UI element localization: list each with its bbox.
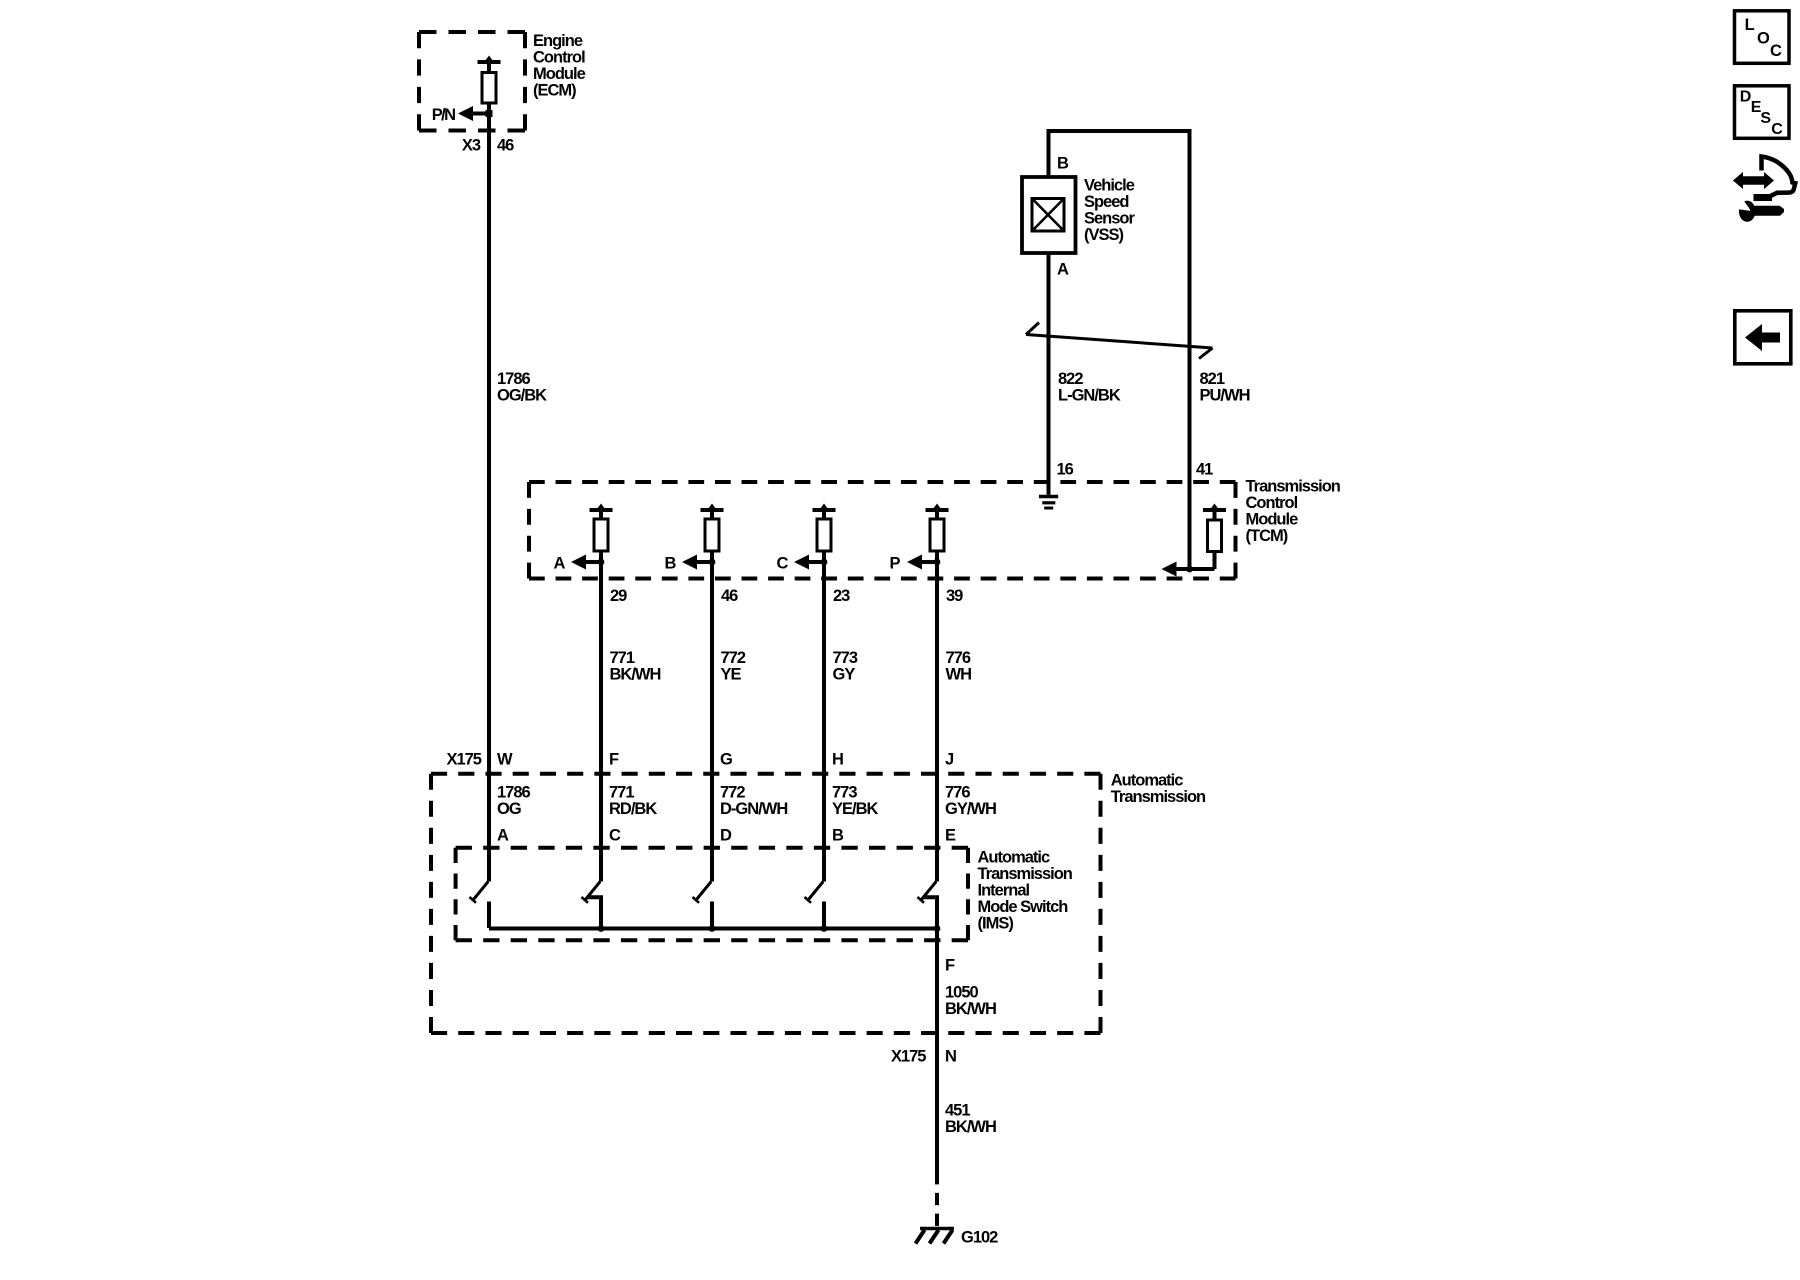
svg-text:1786: 1786 [497,784,531,802]
wire 776 WH from TCM to X175 [935,562,939,882]
connector X175 label (bottom) [891,1048,926,1066]
svg-text:A: A [1057,261,1069,279]
wire 1786 OG/BK from ECM X3-46 to X175-W [487,103,491,882]
IMS pin E label [945,827,956,845]
svg-text:773: 773 [832,784,857,802]
svg-text:BK/WH: BK/WH [610,666,661,684]
svg-text:OG: OG [497,800,521,818]
svg-text:Mode Switch: Mode Switch [978,898,1069,916]
svg-text:J: J [945,751,954,769]
IMS pin F label [945,957,955,975]
svg-text:(TCM): (TCM) [1246,527,1288,545]
bus junction [598,925,605,932]
svg-text:451: 451 [945,1102,970,1120]
svg-text:D: D [1740,88,1752,105]
ECM dashed box (Engine Control Module) [419,32,525,131]
svg-text:Automatic: Automatic [978,849,1050,867]
ground name G102 [961,1229,998,1247]
svg-text:772: 772 [721,649,746,667]
TCM pin 23 label [833,587,850,605]
svg-text:H: H [832,751,843,769]
P/N signal arrow in ECM [432,106,493,124]
svg-text:(VSS): (VSS) [1084,226,1124,244]
svg-text:772: 772 [720,784,745,802]
back arrow icon box [1735,311,1791,364]
compare/related-view icon (double arrow, outline arrow, wrench) [1730,157,1796,222]
svg-text:776: 776 [946,649,971,667]
TCM signal arrow C [777,555,828,573]
svg-text:776: 776 [945,784,970,802]
svg-text:X175: X175 [891,1048,926,1066]
svg-text:X175: X175 [446,751,481,769]
svg-text:1786: 1786 [497,370,531,388]
wire label 1050 BK/WH [945,984,996,1019]
svg-text:OG/BK: OG/BK [497,387,547,405]
wire label 776 WH [946,649,972,684]
connector X175 label (top) [446,751,481,769]
Automatic Transmission label [1111,772,1206,807]
svg-text:B: B [1057,155,1069,173]
wire label 1786 OG (inside transmission) [497,784,531,819]
IMS switch contact C [582,882,602,929]
svg-text:(ECM): (ECM) [533,81,576,99]
wire 771 BK/WH from TCM to X175 [599,562,603,882]
IMS switch contact B [805,882,825,929]
wire label 821 PU/WH [1200,370,1250,405]
svg-text:S: S [1760,110,1771,127]
X175 pin H label [832,751,843,769]
svg-text:X3: X3 [462,137,481,155]
svg-text:L: L [1745,16,1755,34]
svg-text:29: 29 [610,587,627,605]
svg-text:Speed: Speed [1084,193,1129,211]
DESC navigation icon box [1735,86,1790,139]
ground G102 symbol [916,1229,955,1244]
wire VSS pin B up and across to wire 821 [1049,131,1190,569]
svg-text:771: 771 [610,649,635,667]
svg-text:E: E [945,827,956,845]
svg-text:822: 822 [1058,370,1083,388]
wire label 771 BK/WH [610,649,661,684]
svg-text:O: O [1757,30,1770,48]
svg-text:P: P [890,555,901,573]
bus junction [709,925,716,932]
IMS dashed box (Internal Mode Switch) [456,848,968,941]
svg-text:C: C [1770,42,1782,60]
bus junction [934,925,941,932]
svg-text:Module: Module [533,65,586,83]
svg-text:Internal: Internal [978,882,1030,900]
svg-text:821: 821 [1200,370,1225,388]
IMS switch contact E [918,882,938,929]
svg-text:Automatic: Automatic [1111,772,1183,790]
dashed wire continuation to ground [935,1172,939,1226]
svg-text:773: 773 [833,649,858,667]
resistor in TCM col P [926,504,949,563]
svg-text:BK/WH: BK/WH [945,1000,996,1018]
wire label 776 GY/WH (inside transmission) [945,784,996,819]
svg-text:G: G [720,751,732,769]
svg-text:WH: WH [946,666,972,684]
svg-text:A: A [554,555,566,573]
svg-text:Transmission: Transmission [978,865,1073,883]
resistor in TCM for wire 821 (pin 41) [1203,504,1226,570]
svg-text:N: N [945,1048,956,1066]
Vehicle Speed Sensor (VSS) component box [1022,177,1076,253]
TCM pin 29 label [610,587,627,605]
IMS switch contact A [470,882,490,929]
svg-text:Engine: Engine [533,32,583,50]
svg-text:F: F [945,957,955,975]
X175 pin G label [720,751,732,769]
svg-text:A: A [497,827,509,845]
LOC navigation icon box [1735,11,1790,64]
svg-text:RD/BK: RD/BK [609,800,657,818]
svg-text:16: 16 [1057,461,1074,479]
IMS pin C label [609,827,621,845]
svg-text:23: 23 [833,587,850,605]
svg-text:W: W [497,751,513,769]
svg-text:Module: Module [1246,511,1299,529]
svg-text:39: 39 [946,587,963,605]
harness break symbol across wires 822 and 821 [1026,323,1213,359]
TCM signal arrow B [665,555,716,573]
TCM pin 39 label [946,587,963,605]
ECM module label [533,32,586,100]
svg-text:P/N: P/N [432,106,455,124]
svg-text:YE/BK: YE/BK [832,800,879,818]
svg-text:GY: GY [833,666,856,684]
VSS pin B label [1057,155,1069,173]
resistor in TCM col B [701,504,724,563]
svg-text:B: B [832,827,844,845]
svg-text:Transmission: Transmission [1246,478,1341,496]
TCM dashed box (Transmission Control Module) [529,482,1236,579]
svg-text:(IMS): (IMS) [978,915,1014,933]
svg-text:46: 46 [497,137,514,155]
svg-text:G102: G102 [961,1229,998,1247]
VSS pin A label [1057,261,1069,279]
svg-text:BK/WH: BK/WH [945,1118,996,1136]
svg-text:771: 771 [609,784,634,802]
wire label 822 L-GN/BK [1058,370,1121,405]
svg-text:C: C [1771,121,1783,138]
TCM pin 46 label [721,587,738,605]
svg-text:Sensor: Sensor [1084,210,1136,228]
TCM signal arrow P [890,555,941,573]
X175 pin J label [945,751,954,769]
wire 1050 BK/WH from IMS F to X175 N [935,929,939,1173]
svg-text:Vehicle: Vehicle [1084,177,1135,195]
TCM signal arrow at pin 41 [1162,562,1215,577]
wire label 772 D-GN/WH (inside transmission) [720,784,787,819]
svg-text:L-GN/BK: L-GN/BK [1058,387,1121,405]
wire label 772 YE [721,649,746,684]
svg-text:C: C [777,555,789,573]
svg-text:Control: Control [533,48,585,66]
wire label 771 RD/BK (inside transmission) [609,784,657,819]
wire 773 GY from TCM to X175 [822,562,826,882]
IMS module label [978,849,1073,933]
IMS pin D label [720,827,732,845]
TCM module label [1246,478,1341,546]
svg-text:D-GN/WH: D-GN/WH [720,800,787,818]
svg-text:Transmission: Transmission [1111,788,1206,806]
resistor in TCM col C [813,504,836,563]
resistor in TCM col A [590,504,613,563]
wire 822 L-GN/BK from VSS A to TCM 16 [1047,253,1051,495]
svg-text:F: F [609,751,619,769]
ground symbol inside TCM at pin 16 [1039,497,1058,509]
IMS pin A label [497,827,509,845]
svg-text:B: B [665,555,677,573]
wire 772 YE from TCM to X175 [710,562,714,882]
wire label 451 BK/WH [945,1102,996,1137]
svg-text:C: C [609,827,621,845]
VSS module label [1084,177,1136,245]
svg-text:41: 41 [1196,461,1213,479]
TCM pin 16 label [1057,461,1074,479]
svg-text:1050: 1050 [945,984,979,1002]
TCM signal arrow A [554,555,605,573]
svg-text:PU/WH: PU/WH [1200,387,1250,405]
svg-text:YE: YE [721,666,742,684]
X175 pin N label [945,1048,956,1066]
wire label 773 YE/BK (inside transmission) [832,784,879,819]
Automatic Transmission dashed box [431,774,1101,1033]
resistor in ECM (pull-up) [478,56,501,114]
TCM pin 41 label [1196,461,1213,479]
IMS common bus wire [489,927,937,931]
X175 pin F label [609,751,619,769]
bus junction [821,925,828,932]
svg-text:46: 46 [721,587,738,605]
wire label 773 GY [833,649,858,684]
svg-text:Control: Control [1246,494,1298,512]
wire label 1786 OG/BK [497,370,547,405]
X175 pin W label [497,751,513,769]
svg-text:GY/WH: GY/WH [945,800,996,818]
svg-text:D: D [720,827,732,845]
connector X3 pin 46 labels [462,137,514,155]
IMS pin B label [832,827,844,845]
IMS switch contact D [693,882,713,929]
